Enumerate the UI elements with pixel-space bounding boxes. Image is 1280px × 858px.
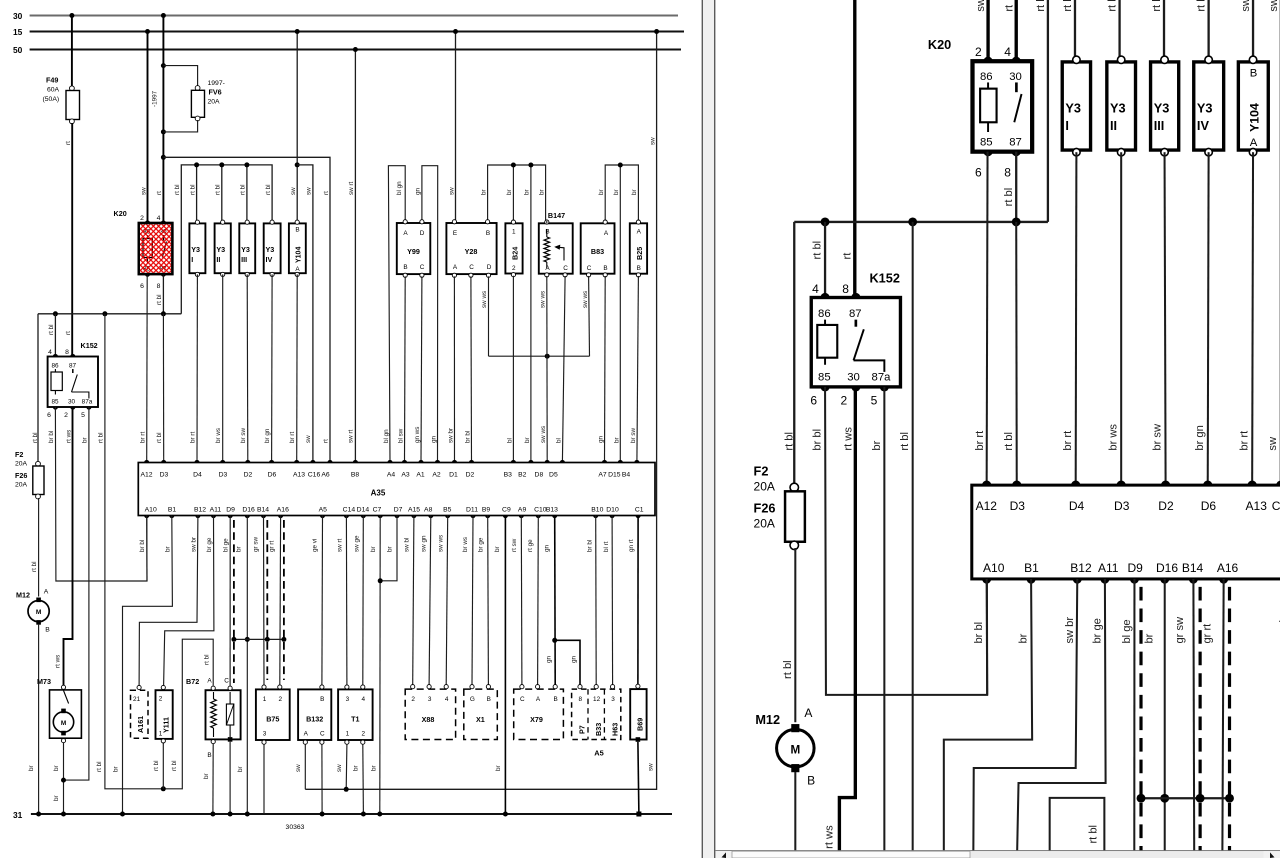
horizontal scrollbar of right panel — [716, 850, 1280, 852]
left panel: full schematic — [13, 11, 684, 831]
K20 highlight crosshatch — [140, 224, 171, 273]
splitter bar — [703, 0, 715, 858]
right panel: zoomed view of schematic — [750, 0, 1280, 858]
